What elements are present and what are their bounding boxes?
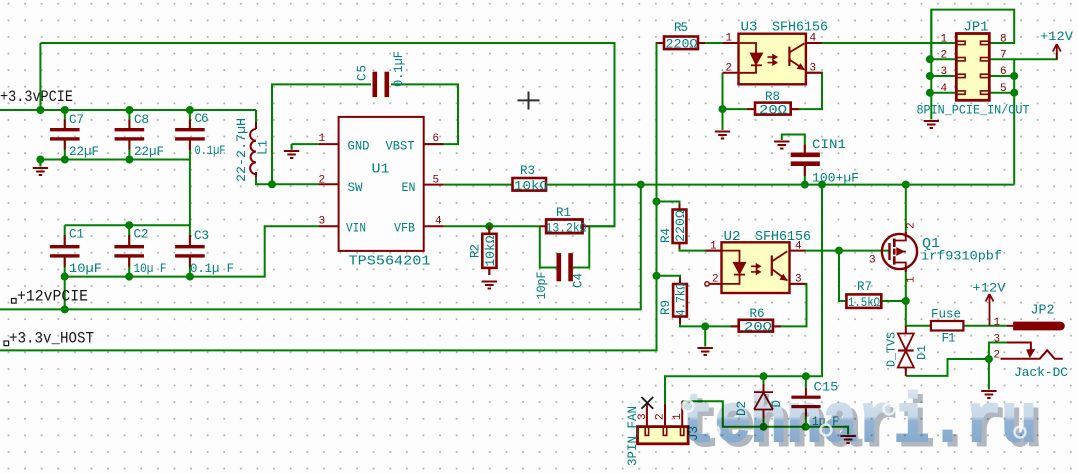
- svg-text:C5: C5: [356, 65, 370, 81]
- junction JP1 pin6: [1010, 72, 1018, 80]
- capacitor C3: [175, 245, 205, 258]
- capacitor CIN1 labels: [812, 138, 859, 186]
- svg-text:C7: C7: [69, 113, 84, 127]
- svg-text:C2: C2: [134, 228, 149, 242]
- svg-text:R5: R5: [674, 21, 688, 35]
- svg-text:tehnari.ru: tehnari.ru: [679, 384, 1037, 463]
- svg-text:GND: GND: [348, 140, 370, 154]
- junction JP1 pin3: [926, 72, 934, 80]
- svg-text:22-2.7µH: 22-2.7µH: [235, 118, 249, 182]
- capacitor C7 pin stubs: [64, 120, 66, 150]
- svg-text:13.2kΩ: 13.2kΩ: [546, 222, 587, 236]
- connector JP2 label: [1031, 303, 1055, 319]
- U1 left pin stubs 1 2 3: [319, 144, 339, 226]
- resistor R1 pin stubs: [540, 225, 590, 227]
- svg-text:8PIN_PCIE_IN/OUT: 8PIN_PCIE_IN/OUT: [917, 104, 1030, 118]
- svg-text:3: 3: [319, 216, 326, 228]
- wire C1 leads: [64, 225, 66, 309]
- capacitor C1 labels: [69, 228, 102, 277]
- wire top horizontal to VFB loop: [40, 43, 614, 226]
- capacitor C5 labels: [356, 51, 407, 87]
- svg-text:3: 3: [941, 66, 948, 78]
- diode D2 labels: [735, 400, 784, 416]
- svg-text:22µF: 22µF: [134, 145, 164, 159]
- wire gnd stub at R6 junction: [704, 326, 706, 346]
- svg-text:4.7kΩ: 4.7kΩ: [675, 283, 689, 316]
- wire SW pin2: [272, 183, 319, 185]
- junction top wire riser: [36, 106, 44, 114]
- ground at C7 rail: [33, 160, 48, 176]
- resistor R7: [846, 294, 881, 308]
- svg-text:2: 2: [319, 175, 326, 187]
- wire JP1 left vertical to gnd: [930, 10, 932, 120]
- connector JP1 labels: [917, 20, 1030, 118]
- svg-text:F1: F1: [942, 332, 956, 346]
- junction SW node: [268, 180, 276, 188]
- junction Q1 drain rail: [902, 181, 910, 189]
- wire jack gnd stub: [988, 359, 990, 390]
- wire R4 branch: [657, 202, 680, 210]
- svg-text:L1: L1: [257, 140, 271, 155]
- junction C1 bottom: [61, 273, 69, 281]
- capacitor C5: [373, 72, 390, 97]
- resistor R7 labels: [848, 280, 880, 310]
- ground at JP1: [924, 121, 939, 128]
- capacitor C7: [50, 128, 80, 141]
- wire R7 left riser: [839, 251, 846, 301]
- ground at U3 junction: [715, 132, 730, 139]
- optocoupler U3 LED: [739, 43, 762, 73]
- wire C5 left riser: [272, 84, 371, 184]
- junction C2 top: [125, 221, 133, 229]
- ground at jack: [981, 391, 996, 398]
- node +3.3vPCIE label: [0, 88, 73, 106]
- svg-text:5: 5: [1000, 83, 1007, 95]
- resistor R2 labels: [469, 235, 499, 267]
- svg-text:D1: D1: [915, 345, 929, 360]
- cursor crosshair: [518, 92, 540, 110]
- resistor R6 pin stubs: [731, 325, 781, 327]
- wire U3 pin2 drop to gnd junction: [723, 73, 748, 109]
- capacitor C8 pin stubs: [128, 120, 130, 150]
- svg-text:TPS564201: TPS564201: [349, 254, 431, 270]
- optocoupler U3 box: [739, 34, 806, 85]
- capacitor C6 pin stubs: [189, 120, 191, 151]
- capacitor C4: [557, 253, 573, 281]
- junction U3 pin2 R8 gnd: [719, 105, 727, 113]
- svg-text:2: 2: [655, 413, 667, 420]
- junction R8 riser rail: [818, 181, 826, 189]
- wire C4 loop: [540, 226, 590, 267]
- diode D1 TVS: [898, 334, 914, 368]
- J3 pin numbers: [637, 413, 684, 420]
- svg-text:1: 1: [726, 33, 733, 45]
- svg-text:Jack-DC: Jack-DC: [1014, 366, 1068, 380]
- wire R9 branch: [657, 276, 681, 284]
- svg-text:3: 3: [869, 255, 876, 267]
- wire JP1 loop pin2 to pin8: [931, 10, 1014, 60]
- JP1 pin nubs: [957, 41, 989, 94]
- transistor Q1 pin stubs: [905, 232, 907, 272]
- resistor R8 pin stubs: [747, 108, 799, 110]
- svg-text:VFB: VFB: [394, 222, 415, 236]
- inductor L1 pin stubs: [255, 122, 257, 177]
- connector J3 3PIN_FAN box: [638, 427, 689, 444]
- ground at CIN1: [774, 142, 789, 149]
- node +12vPCIE label: [12, 288, 89, 306]
- wire +3.3v_HOST rail and riser: [0, 43, 664, 350]
- svg-text:20Ω: 20Ω: [759, 104, 788, 118]
- svg-text:220Ω: 220Ω: [666, 38, 699, 52]
- svg-text:4: 4: [435, 216, 442, 228]
- ground at C15 rail: [840, 436, 855, 443]
- transistor Q1 MOSFET: [882, 232, 917, 270]
- optocoupler U2 coupling arrows: [751, 264, 760, 274]
- wire VIN pin3: [65, 226, 319, 276]
- capacitor C6 labels: [195, 112, 226, 158]
- wire +3.3vPCIE rail: [0, 109, 256, 111]
- wire GND pin1: [292, 144, 319, 149]
- wire JP1 pin6: [989, 75, 1014, 77]
- svg-text:2: 2: [994, 350, 1001, 362]
- svg-text:U3: U3: [741, 20, 758, 36]
- svg-text:8: 8: [1000, 34, 1007, 46]
- svg-text:22µF: 22µF: [69, 145, 99, 159]
- capacitor C1 pin stubs: [64, 235, 66, 267]
- wire R7 right to Q1 source column: [881, 300, 906, 302]
- wire +12vPCIE rail and riser: [0, 185, 641, 310]
- svg-text:U2: U2: [724, 229, 741, 245]
- connector JP1 box: [956, 34, 989, 101]
- junction JP1 pin4: [926, 89, 934, 97]
- junction C6 top: [186, 106, 194, 114]
- svg-text:R8: R8: [765, 90, 780, 104]
- svg-text:+12V: +12V: [1040, 30, 1074, 44]
- optocoupler U2 transistor: [772, 251, 788, 280]
- capacitor C3 labels: [190, 229, 234, 276]
- svg-text:R2: R2: [469, 244, 483, 258]
- capacitor C6: [175, 128, 205, 141]
- wire C5 right to VBST: [391, 84, 458, 144]
- resistor R6: [739, 320, 773, 332]
- wire caps bottom rail to ground: [40, 160, 190, 166]
- jack DC pin2 lead with spring: [1001, 350, 1063, 358]
- jack DC label: [1014, 366, 1068, 380]
- capacitor C2 pin stubs: [128, 235, 130, 267]
- resistor R5: [664, 37, 698, 50]
- fuse F1: [931, 321, 964, 331]
- U1 pin names and designator: [346, 140, 431, 270]
- wire L1 column: [256, 110, 272, 184]
- svg-text:JP2: JP2: [1031, 303, 1055, 319]
- svg-text:6: 6: [433, 133, 440, 145]
- svg-text:SW: SW: [348, 181, 363, 195]
- svg-text:10µ F: 10µ F: [134, 262, 167, 276]
- svg-text:CIN1: CIN1: [812, 138, 846, 152]
- capacitor C15 labels: [812, 381, 839, 430]
- svg-text:R6: R6: [750, 307, 765, 321]
- svg-text:0.1µF: 0.1µF: [195, 144, 226, 158]
- svg-text:4: 4: [810, 33, 817, 45]
- svg-text:R3: R3: [520, 164, 535, 178]
- wire U2 pin4 to Q1 gate: [806, 250, 890, 252]
- svg-text:2: 2: [726, 63, 733, 75]
- wire D1 bottom jog to jack junction: [906, 359, 989, 376]
- svg-text:+12V: +12V: [973, 282, 1007, 296]
- wire JP1 pin4: [931, 92, 956, 94]
- wire fan pin2 riser: [664, 376, 666, 404]
- wire gnd stub at U3 junction: [722, 109, 724, 130]
- svg-text:100+µF: 100+µF: [812, 172, 859, 186]
- capacitor C15: [791, 396, 820, 409]
- svg-text:4: 4: [941, 83, 948, 95]
- svg-text:4: 4: [795, 241, 802, 253]
- svg-text:Fuse: Fuse: [931, 308, 961, 322]
- node +3.3v_HOST label: [4, 329, 94, 347]
- junction +12vPCIE rail: [61, 305, 69, 313]
- power +12V bottom arrow: [986, 294, 994, 326]
- op-amp U1 TPS564201 box: [339, 117, 424, 251]
- wire C8 leads: [128, 110, 130, 160]
- wire jack pins 2-3 tie: [989, 343, 1007, 360]
- capacitor C2 labels: [134, 228, 167, 277]
- svg-text:1: 1: [319, 133, 326, 145]
- optocoupler U2 pin stubs: [706, 251, 806, 284]
- svg-text:+12vPCIE: +12vPCIE: [17, 288, 88, 306]
- junction C8 bottom: [125, 156, 133, 164]
- wire R9 bottom to gnd junction: [680, 317, 739, 327]
- power +12V top label: [1040, 30, 1074, 44]
- wire R8 right riser to U3 pin3: [791, 73, 822, 109]
- resistor R4 pin stubs: [679, 204, 681, 250]
- svg-text:220Ω: 220Ω: [674, 209, 688, 242]
- fuse F1 labels: [931, 308, 961, 346]
- capacitor C1: [50, 245, 80, 258]
- Q1 pin numbers: [869, 222, 918, 283]
- wire riser to top wire: [39, 43, 41, 110]
- resistor R3 labels: [514, 164, 549, 194]
- wire R4 to U2 pin1: [680, 243, 722, 251]
- resistor R4: [673, 210, 687, 244]
- wire C1-C3 top rail: [65, 224, 190, 226]
- capacitor C7 labels: [69, 113, 99, 159]
- jack DC pin3 lead and arrow: [1007, 343, 1034, 358]
- junction C15 top: [802, 372, 810, 380]
- power +12V bottom label: [973, 282, 1007, 296]
- connector J3 pin stubs: [647, 401, 682, 426]
- junction CIN1 rail: [801, 181, 809, 189]
- optocoupler U3 pin stubs: [723, 43, 823, 73]
- svg-text:2: 2: [712, 274, 719, 286]
- junction C7 top: [61, 106, 69, 114]
- svg-text:10pF: 10pF: [535, 272, 549, 300]
- capacitor C8 labels: [134, 113, 164, 159]
- ground at U1 pin1: [284, 144, 299, 158]
- junction gnd rail left: [36, 156, 44, 164]
- svg-text:2: 2: [906, 222, 918, 229]
- wire JP1 pin7 to +12V: [989, 51, 1057, 59]
- wire R2 stub: [488, 226, 490, 275]
- svg-text:VIN: VIN: [346, 222, 366, 236]
- wire JP1 pin2: [931, 58, 956, 60]
- svg-text:6: 6: [1000, 66, 1007, 78]
- wire JP1 pin3: [931, 75, 956, 77]
- U3 pin numbers: [726, 33, 817, 75]
- svg-text:+3.3vPCIE: +3.3vPCIE: [0, 88, 73, 106]
- junction C8 top: [125, 106, 133, 114]
- junction D2 top: [760, 372, 768, 380]
- svg-text:3: 3: [795, 274, 802, 286]
- connector J3 labels: [626, 406, 701, 466]
- svg-text:5: 5: [433, 175, 440, 187]
- resistor R9 pin stubs: [679, 278, 681, 324]
- svg-text:R9: R9: [659, 300, 673, 315]
- junction C3 bottom: [186, 273, 194, 281]
- svg-text:U1: U1: [372, 162, 390, 178]
- svg-text:1: 1: [710, 241, 717, 253]
- optocoupler U2 box: [722, 242, 790, 293]
- diode D1 labels: [885, 332, 930, 367]
- svg-text:10kΩ: 10kΩ: [514, 180, 549, 194]
- junction Q1 gate R7: [835, 247, 843, 255]
- svg-text:D_TVS: D_TVS: [885, 332, 899, 367]
- diode D2 pin stubs: [763, 384, 765, 418]
- junction R9 branch: [653, 272, 661, 280]
- wire D2 leads: [763, 376, 765, 427]
- svg-text:20Ω: 20Ω: [744, 321, 773, 335]
- svg-text:EN: EN: [402, 181, 416, 195]
- junction D2 bottom: [760, 423, 768, 431]
- svg-text:3: 3: [994, 334, 1001, 346]
- junction EN rail +12vPCIE riser: [637, 181, 645, 189]
- junction Q1 source R7: [902, 297, 910, 305]
- diode D2: [754, 392, 773, 409]
- wire R5 to U3 pin1: [698, 42, 739, 44]
- capacitor CIN1: [791, 153, 820, 167]
- resistor R3: [513, 178, 547, 191]
- transistor Q1 labels: [921, 236, 1002, 264]
- svg-text:10kΩ: 10kΩ: [484, 235, 498, 267]
- junction JP1 pin2: [926, 55, 934, 63]
- svg-text:+3.3v_HOST: +3.3v_HOST: [9, 329, 94, 347]
- junction C2 bottom: [125, 273, 133, 281]
- svg-text:3: 3: [637, 413, 649, 420]
- svg-text:7: 7: [1000, 50, 1007, 62]
- svg-text:1: 1: [906, 276, 918, 283]
- junction R9 R6 gnd: [701, 322, 709, 330]
- capacitor C3 pin stubs: [189, 235, 191, 267]
- wire EN pin5 row: [444, 184, 1015, 186]
- svg-text:SFH6156: SFH6156: [755, 229, 811, 245]
- resistor R1: [546, 220, 582, 234]
- svg-text:0.1µ F: 0.1µ F: [190, 262, 234, 276]
- svg-text:R7: R7: [857, 280, 872, 294]
- svg-text:C8: C8: [134, 113, 149, 127]
- optocoupler U3 coupling arrows: [768, 55, 777, 65]
- no-connect X on fan pin3: [641, 397, 653, 409]
- wire C3 leads: [189, 225, 191, 276]
- wire fan pin1 elbow to bottom rail: [682, 401, 848, 434]
- resistor R4 labels: [659, 209, 688, 243]
- power +12V top arrow: [1053, 44, 1061, 59]
- svg-text:C1: C1: [69, 228, 84, 242]
- junction C7 bottom: [61, 156, 69, 164]
- wire C2 leads: [128, 225, 130, 276]
- wire VFB pin4 row: [444, 225, 615, 227]
- capacitor C2: [114, 245, 144, 258]
- U1 right pin stubs 6 5 4: [424, 144, 444, 226]
- resistor R8: [755, 103, 791, 115]
- svg-text:3: 3: [810, 63, 817, 75]
- resistor R5 labels: [666, 21, 699, 52]
- ground at R2: [482, 282, 497, 289]
- capacitor C15 pin stubs: [805, 388, 807, 416]
- wire C15 leads: [805, 376, 807, 427]
- junction R4 branch: [653, 198, 661, 206]
- optocoupler U3 labels: [741, 20, 829, 36]
- svg-text:10µF: 10µF: [69, 262, 102, 276]
- svg-text:VBST: VBST: [386, 140, 415, 154]
- svg-text:1: 1: [941, 34, 948, 46]
- resistor R2: [482, 234, 496, 268]
- wire JP1 right vertical to EN rail: [1013, 59, 1015, 184]
- optocoupler U3 transistor: [789, 43, 804, 70]
- capacitor CIN1 pin stubs: [804, 145, 806, 177]
- optocoupler U2 labels: [724, 229, 812, 245]
- junction VFB R2: [485, 222, 493, 230]
- junction C15 bottom: [802, 423, 810, 431]
- svg-text:C3: C3: [194, 229, 209, 243]
- wire JP1 pin5: [989, 92, 1014, 94]
- optocoupler U2 LED: [722, 251, 746, 284]
- wire CIN1 top to gnd: [782, 135, 805, 153]
- connector JP2 bar: [1013, 322, 1065, 331]
- resistor R8 labels: [759, 90, 788, 118]
- WATERMARK: [679, 384, 1042, 468]
- svg-text:1.5kΩ: 1.5kΩ: [848, 296, 880, 310]
- resistor R6 labels: [744, 307, 773, 335]
- U2 pin numbers: [710, 241, 802, 286]
- wire Q1 drain riser: [905, 185, 907, 232]
- inductor L1 labels: [235, 118, 271, 182]
- svg-text:SFH6156: SFH6156: [772, 20, 828, 36]
- wire R8 rail riser down to D2 rail: [665, 185, 822, 403]
- wire Q1 source column to fuse: [906, 270, 931, 326]
- svg-text:JP1: JP1: [964, 20, 989, 36]
- svg-text:R4: R4: [659, 228, 673, 243]
- wire fuse to JP2: [963, 325, 1007, 327]
- svg-text:C4: C4: [572, 273, 586, 288]
- capacitor C8: [115, 128, 145, 141]
- wire R6 right riser to U2 pin3: [773, 284, 807, 327]
- J3 pin nubs: [645, 427, 684, 435]
- junction jack pin2 gnd: [985, 355, 993, 363]
- jack pin numbers: [994, 317, 1001, 362]
- diode D1 pin stubs: [905, 326, 907, 376]
- resistor R1 labels: [546, 206, 587, 236]
- svg-text:irf9310pbf: irf9310pbf: [921, 250, 1002, 264]
- svg-text:1: 1: [994, 317, 1001, 329]
- resistor R9 labels: [659, 283, 689, 316]
- svg-text:2: 2: [941, 50, 948, 62]
- junction JP1 pin5: [1010, 89, 1018, 97]
- svg-text:0.1µF: 0.1µF: [392, 51, 406, 87]
- U1 pin numbers: [319, 133, 443, 228]
- resistor R2 pin stubs: [488, 226, 490, 275]
- wire C7 leads: [64, 110, 66, 160]
- U2 pin2 open circle: [705, 282, 709, 286]
- wire C6 leads: [189, 110, 191, 225]
